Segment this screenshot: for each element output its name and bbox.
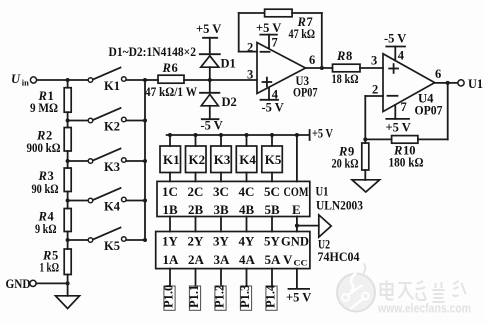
svg-text:K4: K4 (239, 152, 256, 167)
port box P1.0 (161, 285, 175, 311)
node F (GND junction) (66, 281, 70, 285)
feedback top wire to R7 (239, 12, 265, 14)
svg-text:+5 V: +5 V (286, 291, 311, 305)
watermark text (Chinese brand glyphs) (381, 281, 466, 303)
svg-text:CC: CC (294, 258, 308, 268)
wire node D to K4 left contact (68, 200, 88, 202)
resistor R3 (32, 168, 72, 196)
node G (diode clamp / signal junction) (208, 78, 212, 82)
svg-text:2C: 2C (188, 184, 204, 199)
svg-text:5C: 5C (264, 184, 280, 199)
svg-text:8: 8 (346, 49, 352, 63)
wire bus to relay K2 coil (195, 135, 197, 146)
watermark logo (elecfans) (337, 264, 375, 312)
U3 pin 2 wire (239, 51, 257, 53)
GND terminal (6, 277, 37, 291)
svg-text:4Y: 4Y (239, 234, 256, 249)
U3 minus sign (261, 51, 270, 53)
svg-text:3B: 3B (214, 202, 230, 217)
svg-text:6: 6 (309, 53, 315, 67)
svg-text:5A: 5A (265, 252, 282, 267)
wire bus to relay K3 coil (220, 135, 222, 146)
wire K2 coil to U1 pin 2C (195, 173, 197, 182)
wire U1 3B to U2 3Y (220, 217, 222, 232)
node I (U4 output) (446, 81, 450, 85)
resistor R5 (40, 249, 72, 275)
node E (R4/R5, K5 tap) (66, 238, 70, 242)
wire R1 to R2 (67, 112, 69, 127)
svg-text:1C: 1C (162, 184, 178, 199)
svg-text:www.elecfans.com: www.elecfans.com (377, 301, 471, 316)
node C (R2/R3, K3 tap) (66, 159, 70, 163)
switch K1 (88, 68, 126, 94)
wire +5V rail to D1 (209, 38, 211, 53)
wire K4 coil to U1 pin 4C (246, 173, 248, 182)
wire node C to K3 left contact (68, 160, 88, 162)
resistor R1 (30, 88, 71, 115)
svg-text:180 kΩ: 180 kΩ (389, 156, 424, 170)
svg-text:6: 6 (435, 67, 441, 81)
svg-text:P1.0: P1.0 (161, 285, 175, 308)
svg-text:-5 V: -5 V (262, 101, 284, 115)
port box P1.2 (212, 285, 226, 311)
svg-text:K5: K5 (104, 239, 120, 253)
svg-text:K1: K1 (163, 152, 180, 167)
wire U2 Vcc to +5V rail (296, 269, 298, 289)
wire U1 E to U2 GND (296, 217, 298, 232)
svg-text:+5 V: +5 V (196, 22, 221, 36)
svg-text:9 MΩ: 9 MΩ (30, 101, 58, 115)
+5V bus terminal tick (310, 127, 333, 141)
svg-text:P1.4: P1.4 (263, 284, 277, 308)
wire U1 5B to U2 5Y (271, 217, 273, 232)
svg-text:K1: K1 (104, 79, 120, 93)
switch K4 (88, 188, 126, 214)
wire R7 to right vertical (292, 12, 322, 14)
input terminal Uin (11, 72, 37, 88)
svg-text:GND: GND (281, 234, 309, 249)
svg-text:4C: 4C (239, 184, 255, 199)
U3 -5V supply (pin 4) (261, 88, 284, 115)
resistor R6 (145, 61, 197, 99)
wire U2 1A to P1.0 (169, 269, 171, 286)
wire K4 to bus (126, 200, 145, 202)
svg-text:E: E (292, 202, 301, 217)
wire U2 2A to P1.1 (195, 269, 197, 286)
wire bus to relay K4 coil (246, 135, 248, 146)
svg-text:5Y: 5Y (264, 234, 281, 249)
wire K2 to bus (126, 120, 145, 122)
wire bus to relay K1 coil (169, 135, 171, 146)
svg-text:3: 3 (371, 54, 377, 68)
svg-text:D1: D1 (221, 57, 236, 71)
bus junction dots (143, 78, 147, 242)
svg-text:3: 3 (247, 68, 253, 82)
svg-text:-5 V: -5 V (201, 119, 223, 133)
node D (R3/R4, K4 tap) (66, 199, 70, 203)
svg-text:R: R (336, 49, 345, 63)
op-amp U3 (257, 43, 318, 100)
svg-text:+5 V: +5 V (386, 121, 411, 135)
diode D1 (200, 54, 236, 70)
svg-text:K3: K3 (214, 152, 231, 167)
svg-text:3Y: 3Y (213, 234, 230, 249)
svg-text:K3: K3 (104, 160, 120, 174)
svg-text:20 kΩ: 20 kΩ (332, 157, 359, 171)
svg-text:GND: GND (6, 277, 31, 291)
wire K5 coil to U1 pin 5C (271, 173, 273, 182)
wire U1 2B to U2 2Y (195, 217, 197, 232)
resistor R9 (332, 143, 369, 171)
node H (U3 output) (320, 66, 324, 70)
svg-text:in: in (22, 78, 29, 88)
ground symbol (right) (352, 180, 380, 192)
svg-text:18 kΩ: 18 kΩ (332, 72, 359, 86)
wire D1 to D2 (signal node) (209, 67, 211, 91)
relay coil K2 (186, 146, 207, 173)
resistor R7 (265, 9, 315, 41)
wire bus to R6 (145, 79, 158, 81)
switch K5 (88, 228, 126, 254)
svg-text:R: R (38, 169, 47, 183)
U3 plus sign (263, 78, 272, 87)
svg-text:1Y: 1Y (162, 234, 179, 249)
svg-text:47 kΩ/1 W: 47 kΩ/1 W (145, 85, 197, 99)
wire D2 to -5V rail (209, 106, 211, 119)
switch K2 (88, 108, 126, 134)
svg-text:P1.1: P1.1 (187, 285, 201, 308)
svg-text:K2: K2 (104, 120, 120, 134)
svg-text:4B: 4B (239, 202, 255, 217)
svg-text:3A: 3A (214, 252, 231, 267)
svg-text:P1.2: P1.2 (212, 285, 226, 308)
port box P1.3 (238, 285, 252, 311)
U4 +5V supply (pin 7) (386, 100, 411, 135)
feedback left vertical wire (238, 13, 240, 52)
resistor R8 (332, 49, 361, 86)
wire K1 to bus (126, 79, 145, 81)
wire node K to inverter (297, 225, 319, 227)
relay coil K4 (236, 146, 256, 173)
svg-text:1 kΩ: 1 kΩ (40, 261, 60, 275)
svg-text:1B: 1B (163, 202, 179, 217)
wire R4 to R5 (67, 232, 69, 250)
svg-text:OP07: OP07 (293, 86, 318, 100)
svg-text:4: 4 (398, 49, 405, 63)
resistor R2 (27, 128, 72, 156)
svg-text:K2: K2 (189, 152, 206, 167)
wire R8 to U4 pin3 (360, 67, 383, 69)
svg-text:U1: U1 (316, 185, 329, 199)
svg-text:1A: 1A (163, 252, 180, 267)
svg-text:90 kΩ: 90 kΩ (32, 182, 59, 196)
bus junction dots (168, 133, 299, 137)
wire node E to K5 left contact (68, 239, 88, 241)
wire U4 output to terminal (435, 82, 458, 84)
resistor R4 (35, 209, 71, 237)
ground symbol (left) (56, 296, 80, 309)
svg-text:2: 2 (372, 83, 378, 97)
feedback right vertical wire to output node (321, 13, 323, 68)
svg-text:7: 7 (272, 36, 278, 50)
wire K3 coil to U1 pin 3C (220, 173, 222, 182)
svg-text:OP07: OP07 (415, 104, 443, 118)
U4 pin 2 wire (365, 95, 383, 97)
IC U1 ULN2003 box (157, 181, 310, 217)
op-amp U4 (383, 54, 443, 118)
svg-text:K4: K4 (104, 200, 121, 214)
U4 minus sign (388, 95, 398, 97)
svg-text:P1.3: P1.3 (238, 285, 252, 308)
inverter gate symbol (74HC04) (319, 215, 331, 237)
wire R2 to R3 (67, 151, 69, 168)
U4 -5V supply (pin 4) (384, 32, 406, 63)
IC U2 74HC04 box (156, 232, 310, 269)
U3 +5V supply (pin 7) (256, 21, 281, 50)
-5V rail below D2 (201, 119, 223, 133)
svg-text:COM: COM (284, 184, 309, 199)
relay coil K1 (160, 146, 181, 173)
wire node A to R1 (67, 80, 69, 88)
svg-text:ULN2003: ULN2003 (316, 199, 363, 213)
svg-text:D2: D2 (222, 95, 237, 109)
svg-text:U: U (11, 72, 21, 86)
svg-text:R: R (162, 61, 171, 75)
relay coil K3 (211, 146, 232, 173)
wire U2 3A to P1.2 (220, 269, 222, 286)
output terminal U1 (458, 77, 483, 91)
wire K3 to bus (126, 160, 145, 162)
U1 designator labels (316, 185, 364, 213)
wire R9 to ground (364, 170, 366, 180)
svg-text:900 kΩ: 900 kΩ (27, 141, 61, 155)
svg-text:9 kΩ: 9 kΩ (35, 222, 57, 236)
wire U1 4B to U2 4Y (246, 217, 248, 232)
wire R10 to node J (365, 138, 391, 140)
+5V rail below Vcc (286, 289, 311, 305)
svg-text:4: 4 (272, 88, 279, 102)
svg-text:5B: 5B (265, 202, 281, 217)
wire node B to K2 left contact (68, 120, 88, 122)
wire R3 to R4 (67, 192, 69, 209)
wire output node down (447, 83, 449, 139)
wire bus to U1 pin COM (296, 135, 298, 181)
node J (R9/R10/pin2) (363, 137, 367, 141)
svg-text:D1~D2:1N4148×2: D1~D2:1N4148×2 (109, 45, 197, 59)
svg-text:3: 3 (48, 169, 54, 183)
relay coil +5V bus (167, 134, 310, 136)
wire K1 coil to U1 pin 1C (169, 173, 171, 182)
wire U2 4A to P1.3 (246, 269, 248, 286)
svg-text:2A: 2A (188, 252, 205, 267)
wire R6 to U3 pin3 (through diode node) (184, 79, 257, 81)
port box P1.1 (187, 285, 201, 311)
svg-text:+5 V: +5 V (256, 21, 281, 35)
diode D2 (200, 93, 237, 109)
svg-text:2B: 2B (188, 202, 204, 217)
U2 designator labels (318, 238, 361, 265)
svg-text:V: V (283, 252, 293, 267)
+5V rail above D1 (196, 22, 221, 38)
svg-text:K5: K5 (265, 152, 282, 167)
switch K3 (88, 149, 126, 175)
svg-text:U1: U1 (468, 77, 483, 91)
node A (Uin / R1 top) (66, 78, 70, 82)
resistor R10 (389, 136, 424, 170)
svg-text:6: 6 (172, 61, 178, 75)
svg-text:74HC04: 74HC04 (318, 250, 361, 264)
node K (E/GND junction) (295, 224, 299, 228)
wire U1 1B to U2 1Y (169, 217, 171, 232)
svg-text:2Y: 2Y (188, 234, 205, 249)
wire bus to relay K5 coil (271, 135, 273, 146)
svg-text:+5 V: +5 V (312, 127, 333, 141)
port box P1.4 (263, 284, 277, 310)
svg-text:3C: 3C (213, 184, 229, 199)
switch bus vertical wire (144, 80, 146, 240)
relay coil K5 (262, 146, 283, 173)
U4 plus sign (389, 64, 398, 73)
svg-text:47 kΩ: 47 kΩ (289, 27, 316, 41)
wire R5 to ground (67, 275, 69, 296)
wire Uin to K1 left contact (37, 79, 88, 81)
svg-text:-5 V: -5 V (384, 32, 406, 46)
wire U2 5A to P1.4 (271, 269, 273, 286)
svg-text:4A: 4A (239, 252, 256, 267)
svg-text:7: 7 (401, 100, 407, 114)
wire U3 output to node H (306, 67, 333, 69)
wire GND terminal to ground node (36, 282, 67, 284)
node B (R1/R2, K2 tap) (66, 119, 70, 123)
wire K5 to bus (126, 239, 145, 241)
wire pin2 down to R9/R10 node (364, 96, 366, 143)
wire to R10 (418, 138, 448, 140)
